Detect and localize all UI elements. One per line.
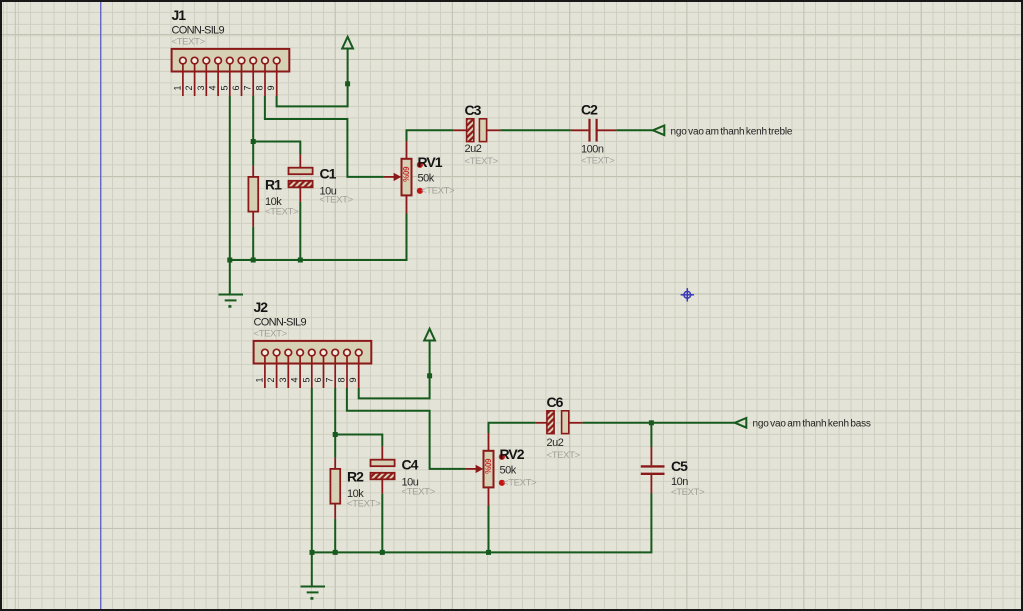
svg-text:5: 5 [301,377,311,382]
svg-text:3: 3 [278,377,288,382]
svg-text:2: 2 [266,377,276,382]
svg-text:<TEXT>: <TEXT> [421,186,455,197]
svg-text:C6: C6 [547,394,564,410]
svg-text:2u2: 2u2 [465,143,482,155]
svg-text:3: 3 [196,85,206,90]
svg-text:<TEXT>: <TEXT> [465,156,499,167]
svg-text:ngo vao am thanh kenh bass: ngo vao am thanh kenh bass [753,418,871,429]
svg-text:50k: 50k [418,172,435,184]
svg-text:<TEXT>: <TEXT> [402,487,436,498]
svg-text:60%: 60% [401,167,410,182]
svg-text:R1: R1 [265,177,282,193]
svg-text:2u2: 2u2 [547,437,564,449]
svg-text:60%: 60% [483,459,492,474]
svg-text:<TEXT>: <TEXT> [581,155,615,166]
svg-text:C1: C1 [320,165,337,181]
svg-text:C5: C5 [671,458,688,474]
svg-text:RV1: RV1 [418,154,443,170]
svg-text:CONN-SIL9: CONN-SIL9 [172,25,225,37]
svg-text:1: 1 [172,85,182,90]
svg-text:<TEXT>: <TEXT> [347,498,381,509]
svg-text:9: 9 [266,85,276,90]
svg-text:6: 6 [313,377,323,382]
svg-text:7: 7 [325,377,335,382]
svg-text:9: 9 [348,377,358,382]
svg-text:1: 1 [254,377,264,382]
svg-text:<TEXT>: <TEXT> [254,329,288,340]
svg-text:2: 2 [184,85,194,90]
svg-text:C3: C3 [465,102,482,118]
svg-text:ngo vao am thanh kenh treble: ngo vao am thanh kenh treble [671,126,793,137]
svg-text:C2: C2 [581,102,598,118]
svg-text:<TEXT>: <TEXT> [547,450,581,461]
svg-text:4: 4 [290,377,300,382]
svg-text:5: 5 [219,85,229,90]
svg-text:50k: 50k [500,464,517,476]
svg-text:C4: C4 [402,457,419,473]
svg-text:CONN-SIL9: CONN-SIL9 [254,317,307,329]
svg-text:8: 8 [255,85,265,90]
svg-text:4: 4 [208,85,218,90]
svg-text:R2: R2 [347,469,364,485]
svg-text:J2: J2 [254,299,269,315]
svg-text:<TEXT>: <TEXT> [671,487,705,498]
svg-text:<TEXT>: <TEXT> [503,478,537,489]
svg-text:6: 6 [231,85,241,90]
svg-text:7: 7 [243,85,253,90]
svg-text:J1: J1 [172,7,187,23]
svg-text:100n: 100n [581,144,604,156]
svg-text:8: 8 [337,377,347,382]
svg-text:<TEXT>: <TEXT> [265,206,299,217]
svg-text:<TEXT>: <TEXT> [172,37,206,48]
svg-text:RV2: RV2 [500,446,525,462]
svg-text:<TEXT>: <TEXT> [320,195,354,206]
